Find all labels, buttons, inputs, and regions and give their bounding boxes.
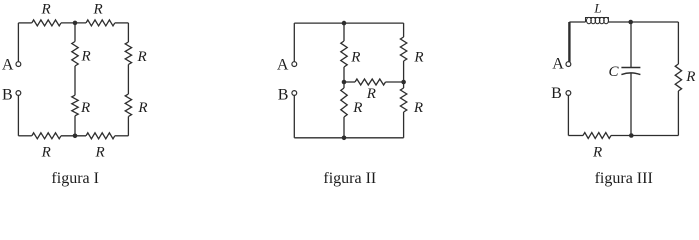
svg-text:R: R xyxy=(41,145,51,161)
resistor R8 fig I bottom-right xyxy=(86,133,115,139)
wire fig III right edge upper xyxy=(677,22,679,64)
figure I bottom wire right segment xyxy=(115,135,129,137)
svg-text:R: R xyxy=(137,100,147,116)
svg-text:figura I: figura I xyxy=(51,170,99,187)
svg-text:R: R xyxy=(592,145,602,161)
wire fig I middle branch lower xyxy=(74,116,76,136)
figure I top wire middle segment xyxy=(61,22,86,24)
wire fig II middle branch upper xyxy=(343,23,345,41)
resistor R2 fig I top-right xyxy=(86,20,115,26)
svg-text:R: R xyxy=(352,100,362,116)
wire fig III top wire to inductor xyxy=(569,21,585,23)
wire fig II middle branch lower xyxy=(343,117,345,138)
wire fig I right edge lower xyxy=(127,117,129,136)
wire fig III bottom middle segment xyxy=(611,135,678,137)
svg-text:R: R xyxy=(95,145,105,161)
svg-text:R: R xyxy=(350,50,360,66)
terminal A fig II xyxy=(292,62,297,67)
svg-text:R: R xyxy=(137,49,147,65)
figure III bottom wire left segment xyxy=(568,135,583,137)
capacitor C fig III xyxy=(621,67,640,69)
node fig II top junction xyxy=(342,21,347,26)
figure II top wire xyxy=(294,22,403,24)
wire fig II right edge upper xyxy=(403,23,405,37)
resistor R fig III bottom xyxy=(583,133,611,139)
resistor R fig III right xyxy=(675,64,681,91)
wire fig I middle branch center xyxy=(74,66,76,95)
svg-text:figura III: figura III xyxy=(595,170,653,187)
terminal B fig III xyxy=(566,91,571,96)
figure I bottom wire middle segment xyxy=(61,135,86,137)
resistor R3 fig II bridge xyxy=(355,79,386,85)
svg-text:B: B xyxy=(278,86,289,103)
svg-text:R: R xyxy=(81,48,91,64)
wire fig III top wire node to corner xyxy=(631,21,679,23)
inductor L fig III xyxy=(586,18,609,23)
node fig II bridge left junction xyxy=(342,80,347,85)
wire fig I right edge upper xyxy=(127,23,129,42)
node fig I top middle junction xyxy=(73,21,78,26)
figure I top wire right segment xyxy=(115,22,129,24)
svg-text:figura II: figura II xyxy=(323,170,376,187)
node fig I bottom middle junction xyxy=(73,134,78,139)
resistor R5 fig II right lower xyxy=(400,88,406,112)
wire fig III capacitor branch upper xyxy=(630,22,632,68)
wire fig II middle branch below bridge xyxy=(343,82,345,88)
svg-text:C: C xyxy=(608,64,619,80)
svg-text:R: R xyxy=(41,2,51,18)
node fig II bridge right junction xyxy=(401,80,406,85)
resistor R2 fig II middle lower xyxy=(341,88,347,117)
node fig II bottom junction xyxy=(342,136,347,141)
wire fig II left edge bottom (B to corner) xyxy=(293,95,295,137)
terminal B fig II xyxy=(292,91,297,96)
svg-text:R: R xyxy=(80,100,90,116)
wire fig II right edge lower xyxy=(403,112,405,138)
resistor R4 fig I middle lower xyxy=(72,95,78,116)
figure I bottom wire left segment xyxy=(18,135,31,137)
wire fig II right edge above bridge xyxy=(403,61,405,82)
resistor R3 fig I middle upper xyxy=(72,42,78,67)
resistor R4 fig II right upper xyxy=(400,37,406,61)
resistor R5 fig I right upper xyxy=(125,42,131,65)
wire fig II left edge top (A to corner) xyxy=(293,23,295,62)
wire fig II bridge left segment xyxy=(344,81,355,83)
wire fig III thick lead from A up to corner xyxy=(568,22,570,62)
svg-text:A: A xyxy=(277,57,289,74)
figure I top wire left segment xyxy=(18,22,31,24)
node fig III top junction xyxy=(628,20,633,25)
svg-text:B: B xyxy=(551,85,562,102)
figure II bottom wire xyxy=(294,137,403,139)
wire fig II bridge right segment xyxy=(386,81,404,83)
wire fig I right edge center xyxy=(127,65,129,95)
resistor R1 fig II middle upper xyxy=(341,41,347,67)
wire fig III capacitor branch lower xyxy=(630,73,632,135)
resistor R1 fig I top-left xyxy=(32,20,61,26)
wire fig III B lead down xyxy=(567,95,569,135)
wire fig III top wire inductor to node xyxy=(608,21,631,23)
wire fig II middle branch above bridge xyxy=(343,67,345,82)
wire fig II right edge below bridge xyxy=(403,82,405,88)
svg-text:R: R xyxy=(413,50,423,66)
terminal B fig I xyxy=(16,91,21,96)
wire fig I left edge top (A to top-left corner) xyxy=(17,23,19,62)
terminal A fig III xyxy=(566,62,571,67)
node fig III bottom junction xyxy=(629,133,634,138)
wire fig I middle branch upper xyxy=(74,23,76,42)
wire fig III right edge lower xyxy=(677,91,679,136)
resistor R6 fig I right lower xyxy=(125,94,131,117)
svg-text:B: B xyxy=(2,86,13,103)
svg-text:R: R xyxy=(93,2,103,18)
wire fig I left edge bottom (B to bottom-left corner) xyxy=(17,95,19,135)
svg-text:L: L xyxy=(593,0,601,15)
svg-text:R: R xyxy=(413,100,423,116)
resistor R7 fig I bottom-left xyxy=(32,133,61,139)
svg-text:R: R xyxy=(685,69,695,85)
svg-text:R: R xyxy=(366,86,376,102)
terminal A fig I xyxy=(16,62,21,67)
svg-text:A: A xyxy=(2,57,14,74)
svg-text:A: A xyxy=(552,56,564,73)
